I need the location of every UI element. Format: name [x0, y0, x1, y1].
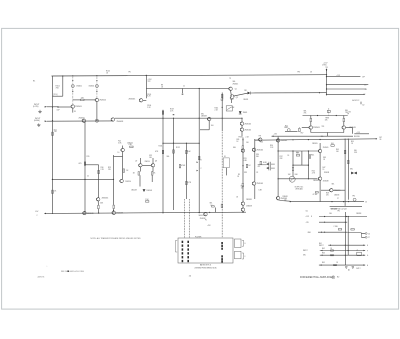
- wire x345: [344, 140, 346, 206]
- svg-text:100: 100: [241, 188, 244, 190]
- svg-text:C11: C11: [306, 210, 309, 212]
- svg-text:R23: R23: [108, 167, 111, 169]
- svg-text:100: 100: [260, 142, 263, 144]
- node: [324, 222, 325, 223]
- svg-text:100: 100: [284, 199, 287, 201]
- resistor R119 body: [52, 190, 54, 193]
- wire: [200, 129, 209, 131]
- node: [62, 75, 63, 76]
- wire stub Q118: [152, 158, 154, 163]
- node chain B1: [96, 80, 97, 81]
- node: [241, 118, 242, 119]
- svg-text:10K: 10K: [296, 152, 299, 154]
- connector J1 box: [178, 238, 233, 263]
- wire: [242, 205, 244, 207]
- svg-text:2N3565: 2N3565: [313, 127, 320, 129]
- svg-text:C3: C3: [256, 172, 258, 174]
- node chain B2: [96, 91, 97, 92]
- svg-text:SEL: SEL: [210, 203, 213, 205]
- wire terminal 1: [326, 76, 360, 78]
- transistor Q118: [151, 163, 155, 167]
- wire column x278: [277, 137, 279, 196]
- connector J1 pin L3: [182, 248, 184, 250]
- svg-text:24: 24: [364, 85, 366, 87]
- node: [290, 201, 291, 202]
- node: [346, 216, 347, 217]
- wire BR x345: [344, 212, 346, 265]
- connector J1 pin R3: [221, 248, 223, 250]
- svg-text:470: 470: [78, 163, 81, 165]
- svg-text:REF DES R44 C12 Q18: REF DES R44 C12 Q18: [331, 209, 347, 211]
- terminal input B: [45, 120, 47, 122]
- arrow in: [330, 244, 331, 246]
- node input A junction: [52, 106, 53, 107]
- svg-text:2N3638: 2N3638: [324, 172, 329, 174]
- svg-text:R104: R104: [106, 70, 110, 72]
- svg-text:22: 22: [363, 94, 365, 96]
- wire: [241, 132, 243, 137]
- wire mid rail: [146, 87, 229, 89]
- wire: [152, 167, 154, 171]
- svg-text:+15V: +15V: [356, 132, 360, 134]
- wire bottom rail right: [290, 201, 364, 203]
- svg-text:15: 15: [323, 169, 325, 171]
- svg-text:C4: C4: [287, 155, 289, 157]
- wire: [298, 127, 300, 130]
- node: [320, 139, 321, 140]
- wire: [319, 181, 321, 202]
- svg-text:TP3: TP3: [297, 72, 300, 74]
- resistor R128: [146, 201, 149, 203]
- svg-text:E: E: [245, 243, 246, 245]
- shield dashed box: [223, 158, 229, 168]
- resistor R142: [162, 150, 164, 153]
- svg-text:R48: R48: [326, 193, 329, 195]
- svg-text:TP6: TP6: [352, 195, 355, 197]
- resistor R28: [242, 183, 244, 186]
- resistor R129: [179, 165, 181, 168]
- svg-text:2N4058: 2N4058: [334, 190, 341, 192]
- wire Q101 emitter: [72, 109, 74, 113]
- node: [96, 75, 97, 76]
- svg-text:R62: R62: [322, 248, 325, 250]
- node: [308, 165, 309, 166]
- wire column x243b: [242, 149, 244, 183]
- arrow out: [364, 264, 365, 266]
- resistor R122: [98, 170, 100, 173]
- svg-text:27: 27: [368, 237, 370, 239]
- wire stub Q117: [139, 158, 141, 163]
- wire pair join: [142, 164, 151, 166]
- node: [186, 143, 187, 144]
- wire: [241, 118, 243, 122]
- wire Q126 out: [279, 200, 290, 203]
- diode CR105: [143, 189, 146, 192]
- svg-text:R65: R65: [322, 262, 325, 264]
- resistor R127: [151, 172, 153, 175]
- svg-text:TRIM: TRIM: [325, 118, 330, 120]
- node: [308, 150, 309, 151]
- resistor R137: [309, 155, 311, 158]
- arrow node B: [197, 170, 198, 172]
- wire: [151, 175, 153, 182]
- arrow out: [364, 254, 365, 256]
- transistor Q122: [252, 148, 256, 152]
- node: [326, 94, 327, 95]
- node: [52, 213, 53, 214]
- svg-text:H: H: [367, 265, 368, 267]
- connector J1 pin L2: [182, 245, 184, 247]
- node: [98, 213, 99, 214]
- svg-text:2N4393: 2N4393: [356, 213, 361, 215]
- transistor Q102: [95, 98, 99, 102]
- wire bias vertical: [145, 75, 147, 98]
- node: [278, 139, 279, 140]
- wire x322: [319, 153, 321, 177]
- node: [199, 212, 200, 213]
- transistor Q114: [112, 211, 116, 215]
- svg-text:2N3565: 2N3565: [75, 106, 82, 108]
- node: [52, 120, 53, 121]
- svg-text:INPUT: INPUT: [319, 245, 324, 247]
- connector J1 pin R2: [221, 245, 223, 247]
- svg-text:R55: R55: [285, 125, 288, 127]
- wire cross-connect: [251, 92, 326, 94]
- wire terminal 3: [326, 88, 366, 90]
- node: [308, 139, 309, 140]
- wire column x255: [254, 140, 256, 182]
- node: [278, 178, 279, 179]
- wire: [254, 185, 256, 199]
- svg-text:C2: C2: [87, 175, 89, 177]
- svg-text:26: 26: [365, 201, 367, 203]
- svg-text:SEL: SEL: [354, 150, 357, 152]
- svg-text:470: 470: [258, 166, 261, 168]
- resistor R14 body: [221, 94, 223, 97]
- svg-text:2N3638: 2N3638: [201, 116, 207, 118]
- svg-text:R33: R33: [244, 172, 247, 174]
- svg-text:SEL: SEL: [233, 147, 236, 149]
- svg-text:R49 SEL: R49 SEL: [354, 136, 360, 138]
- transistor Q133: [259, 138, 263, 142]
- svg-text:26: 26: [380, 139, 382, 141]
- node: [326, 88, 327, 89]
- terminal input A: [45, 106, 47, 108]
- svg-text:R40: R40: [295, 174, 298, 176]
- svg-text:B: B: [201, 159, 202, 161]
- node: [146, 75, 147, 76]
- svg-text:SHT 2: SHT 2: [356, 268, 360, 270]
- svg-text:1K: 1K: [351, 143, 353, 145]
- node: [113, 179, 114, 180]
- wire BR y265: [319, 264, 365, 266]
- svg-text:R43: R43: [323, 157, 326, 159]
- svg-text:B: B: [311, 216, 312, 218]
- arrow power: [326, 69, 328, 71]
- resistor R171: [221, 204, 223, 207]
- node: [324, 216, 325, 217]
- connector J1 pin M4: [187, 252, 189, 254]
- svg-text:+: +: [47, 266, 48, 268]
- svg-text:3.3K: 3.3K: [354, 152, 357, 154]
- diode CR104: [239, 111, 242, 114]
- wire BR y245: [328, 244, 365, 246]
- wire terminal 4: [326, 93, 364, 95]
- svg-text:TP9: TP9: [259, 135, 262, 137]
- svg-text:6.8K: 6.8K: [118, 143, 121, 145]
- svg-text:SEL: SEL: [201, 114, 204, 116]
- potentiometer R115 box: [226, 106, 232, 111]
- node: [96, 120, 97, 121]
- svg-text:R61: R61: [319, 243, 322, 245]
- wire stage rail: [115, 117, 209, 119]
- wire BR y232: [318, 231, 347, 233]
- svg-text:NOTE: ALL TRANSISTORS ARE 2N35: NOTE: ALL TRANSISTORS ARE 2N3565 UNLESS …: [91, 237, 142, 240]
- node: [242, 139, 243, 140]
- svg-text:SEL: SEL: [167, 156, 170, 158]
- wire dotted chain Q-bias B: [96, 76, 98, 85]
- node: [336, 115, 337, 116]
- terminal -15V mini: [272, 135, 273, 137]
- wire: [277, 199, 279, 202]
- wire column x186: [185, 143, 187, 199]
- wire K1 down: [225, 168, 227, 176]
- node: [173, 118, 174, 119]
- resistor R125: [123, 169, 125, 172]
- transistor Q126: [276, 196, 280, 200]
- wire dashed to connector 3: [188, 199, 190, 238]
- svg-text:R31: R31: [244, 158, 247, 160]
- svg-text:Z1: Z1: [357, 250, 359, 252]
- svg-text:2N3565: 2N3565: [99, 100, 106, 102]
- svg-text:C1: C1: [183, 86, 185, 88]
- terminal circle out1: [365, 233, 367, 235]
- transistor Q108: [229, 94, 235, 100]
- wire column x243c: [242, 187, 244, 202]
- svg-text:TP1: TP1: [128, 72, 131, 74]
- svg-text:D2: D2: [362, 104, 364, 106]
- svg-text:Q7: Q7: [135, 161, 137, 163]
- svg-text:SEL: SEL: [332, 183, 335, 185]
- node: [292, 139, 293, 140]
- arrow on rail: [348, 201, 349, 203]
- svg-text:Q1: Q1: [235, 88, 237, 90]
- transistor Q120: [241, 202, 245, 206]
- wire BR y222: [319, 221, 347, 223]
- svg-text:100: 100: [246, 142, 249, 144]
- resistor R102: [81, 99, 84, 101]
- terminal circle out2: [365, 236, 367, 238]
- transistor Q109: [207, 117, 211, 121]
- node: [199, 118, 200, 119]
- dual diode clamp CR110: [258, 162, 275, 171]
- connector J1 pin R5: [221, 258, 223, 260]
- node: [324, 232, 325, 233]
- svg-text:TP4: TP4: [322, 126, 325, 128]
- node: [173, 143, 174, 144]
- svg-text:R45: R45: [336, 149, 339, 151]
- svg-text:1K: 1K: [336, 262, 338, 264]
- node: [162, 212, 163, 213]
- wire: [97, 201, 99, 205]
- svg-text:R11: R11: [54, 130, 57, 132]
- resistor R144: [186, 181, 188, 184]
- svg-text:Q8: Q8: [155, 161, 157, 163]
- svg-text:TP: TP: [229, 78, 231, 80]
- wire: [62, 76, 64, 96]
- svg-text:R25: R25: [149, 155, 152, 157]
- connector J1 right tab upper: [235, 239, 242, 248]
- wire emitter join: [311, 132, 344, 134]
- svg-text:TP2: TP2: [148, 81, 151, 83]
- resistor R8 body: [162, 111, 164, 114]
- svg-text:100: 100: [211, 125, 214, 127]
- resistor R27: [242, 146, 244, 149]
- node: [222, 118, 223, 119]
- wire power drop: [326, 69, 328, 75]
- resistor R155: [344, 150, 346, 153]
- svg-text:R132: R132: [176, 147, 180, 149]
- wire Q102 emitter to rail: [96, 102, 98, 121]
- svg-text:R106: R106: [147, 105, 151, 107]
- connector J1 pin R6: [221, 261, 223, 263]
- arrow output: [376, 138, 377, 140]
- svg-text:SELECTED: SELECTED: [199, 215, 208, 217]
- svg-text:2N3565: 2N3565: [323, 147, 329, 149]
- svg-text:100: 100: [336, 151, 339, 153]
- svg-text:1N4148: 1N4148: [131, 190, 137, 192]
- connector J1 pin R1: [221, 242, 223, 244]
- svg-text:1N961: 1N961: [243, 112, 248, 114]
- svg-text:2N3565: 2N3565: [280, 140, 287, 142]
- svg-text:R47: R47: [323, 167, 326, 169]
- wire column x124: [122, 146, 124, 149]
- node: [292, 150, 293, 151]
- svg-text:R57: R57: [301, 133, 304, 135]
- svg-text:2A76 96: 2A76 96: [38, 276, 45, 279]
- resistor R126: [138, 172, 140, 175]
- svg-text:+15V: +15V: [207, 225, 211, 227]
- svg-text:2N3565: 2N3565: [233, 83, 239, 85]
- connector J1 pin M6: [187, 260, 189, 262]
- svg-text:(VIEWED FROM WIRING SIDE): (VIEWED FROM WIRING SIDE): [195, 267, 217, 269]
- svg-text:P1 (REF): P1 (REF): [195, 236, 202, 238]
- connector J1 pin L4: [182, 252, 184, 254]
- node: [345, 255, 346, 256]
- svg-text:1UF: 1UF: [57, 109, 60, 111]
- svg-text:(HIGH): (HIGH): [34, 120, 40, 122]
- svg-text:R21: R21: [118, 141, 121, 143]
- svg-text:2N3565: 2N3565: [256, 183, 263, 185]
- svg-text:2N3638: 2N3638: [323, 181, 329, 183]
- svg-text:(REG): (REG): [322, 65, 327, 67]
- arrow in: [321, 250, 322, 252]
- svg-text:R131: R131: [159, 146, 163, 148]
- resistor R172: [315, 192, 318, 193]
- transistor Q124: [241, 149, 245, 153]
- svg-text:R105: R105: [147, 94, 151, 96]
- svg-text:R63: R63: [322, 253, 325, 255]
- wire column x222: [221, 93, 223, 131]
- arrow in: [320, 264, 321, 266]
- wire left bus vertical: [52, 76, 54, 213]
- wire Q131 base: [302, 127, 309, 129]
- resistor R140: [331, 145, 334, 147]
- svg-text:2N3638: 2N3638: [246, 206, 252, 208]
- wire terminal trunk: [326, 75, 328, 96]
- wire: [97, 209, 99, 213]
- wire BR y255: [320, 254, 365, 256]
- wire: [53, 95, 63, 97]
- svg-text:2N3565: 2N3565: [256, 150, 263, 152]
- svg-text:R9: R9: [238, 174, 240, 176]
- transistor Q117: [139, 163, 143, 167]
- transistor Q128b: [318, 177, 322, 181]
- svg-text:R36: R36: [270, 145, 273, 147]
- svg-text:1N4611: 1N4611: [76, 86, 82, 88]
- potentiometer R153: [287, 129, 290, 132]
- wire BR y250: [320, 250, 365, 252]
- node: [113, 210, 114, 211]
- svg-text:47 SEL: 47 SEL: [313, 194, 318, 196]
- transistor Q132: [342, 126, 346, 130]
- svg-text:R118: R118: [170, 108, 174, 110]
- wire dotted chain: [96, 88, 98, 99]
- title circled 3: [332, 276, 335, 279]
- node: [308, 178, 309, 179]
- svg-text:6.8K: 6.8K: [100, 202, 103, 204]
- svg-text:R50: R50: [351, 141, 354, 143]
- wire mini rail: [303, 115, 348, 117]
- connector J1 pin L5: [182, 256, 184, 258]
- diode CR107: [354, 172, 357, 175]
- wire x320 up: [319, 143, 321, 149]
- resistor R65 body: [334, 264, 337, 265]
- capacitor C1: [57, 106, 60, 108]
- ground input B: [37, 123, 41, 126]
- connector J1 pin L1: [182, 241, 184, 243]
- svg-text:R16: R16: [101, 167, 104, 169]
- wire: [58, 106, 70, 108]
- wire dashed to connector: [221, 131, 223, 239]
- connector J1 left bracket: [175, 241, 177, 253]
- wire y151: [278, 150, 318, 152]
- node: [348, 216, 349, 217]
- svg-text:R114: R114: [215, 107, 219, 109]
- arrow node A: [197, 161, 198, 163]
- wire output rail: [255, 139, 377, 140]
- transistor Q113: [83, 211, 87, 215]
- svg-text:F: F: [245, 256, 246, 258]
- wire Q115-Q116: [122, 152, 124, 179]
- diode CR102 symbol: [95, 85, 98, 88]
- wire Q129 base: [321, 189, 330, 191]
- wire column x173 upper: [173, 118, 175, 143]
- wire dotted chain: [72, 88, 74, 105]
- node: [348, 139, 349, 140]
- wire diag: [233, 93, 247, 96]
- wire: [143, 99, 146, 101]
- node: [317, 115, 318, 116]
- transistor Q115: [121, 148, 125, 152]
- svg-text:REF DWG 0691-041-L DWG: REF DWG 0691-041-L DWG: [61, 271, 85, 273]
- node: [199, 88, 200, 89]
- svg-text:2N4250: 2N4250: [125, 181, 131, 183]
- svg-text:R15: R15: [87, 156, 90, 158]
- node: [162, 143, 163, 144]
- transistor Q116: [120, 179, 124, 183]
- wire bracket: [360, 102, 362, 105]
